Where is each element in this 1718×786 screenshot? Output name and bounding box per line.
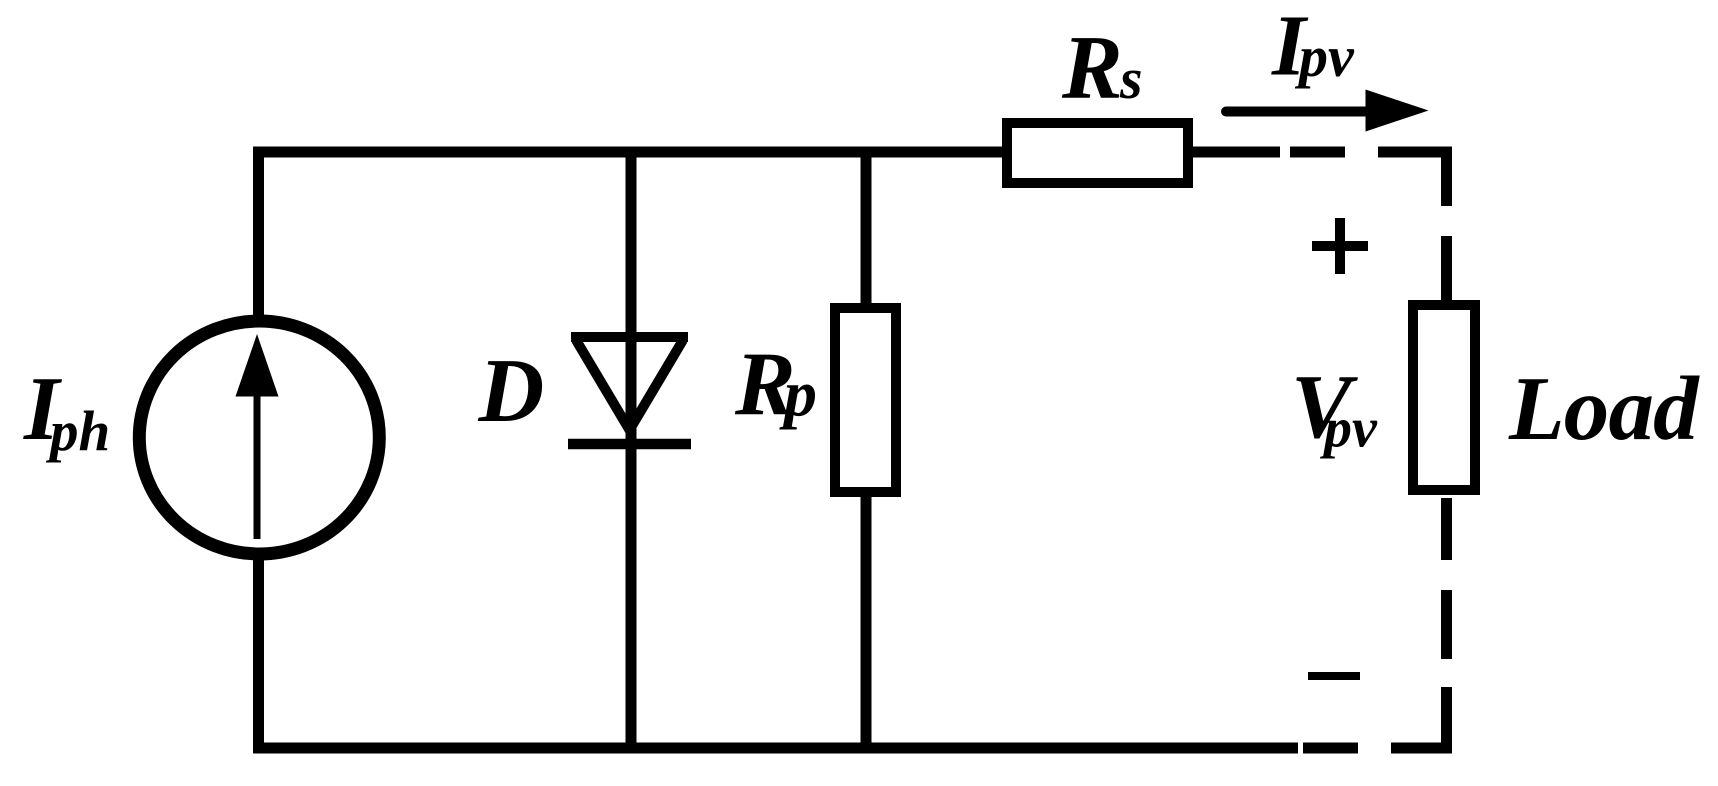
wire dashed load bottom lead bbox=[1441, 498, 1452, 659]
svg-text:Load: Load bbox=[1508, 358, 1700, 459]
wire Rs output lead bbox=[1193, 147, 1280, 158]
svg-text:D: D bbox=[478, 340, 545, 441]
plus terminal bbox=[1312, 218, 1368, 274]
wire top bus bbox=[253, 147, 1002, 158]
svg-text:Vpv: Vpv bbox=[1291, 356, 1378, 460]
wire Rp top lead bbox=[861, 152, 872, 312]
current arrow Ipv bbox=[1221, 90, 1429, 132]
wire dashed positive lead bbox=[1290, 152, 1447, 301]
minus terminal bbox=[1308, 672, 1360, 680]
resistor Rp bbox=[835, 308, 896, 492]
diode D bbox=[568, 337, 691, 444]
wire left vertical top lead bbox=[253, 147, 264, 321]
svg-text:Rp: Rp bbox=[734, 334, 817, 435]
wire dashed bottom return bbox=[1303, 687, 1447, 754]
wire bottom bus bbox=[253, 743, 1298, 754]
wire Rp bottom lead bbox=[861, 490, 872, 748]
svg-text:Ipv: Ipv bbox=[1271, 0, 1355, 94]
svg-text:Rs: Rs bbox=[1061, 17, 1143, 118]
resistor Rs bbox=[1007, 123, 1188, 183]
svg-text:Iph: Iph bbox=[23, 358, 110, 464]
load resistor bbox=[1413, 305, 1475, 490]
current source Iph bbox=[139, 321, 379, 554]
wire source bottom lead bbox=[253, 557, 264, 754]
wire diode branch bbox=[626, 152, 637, 748]
